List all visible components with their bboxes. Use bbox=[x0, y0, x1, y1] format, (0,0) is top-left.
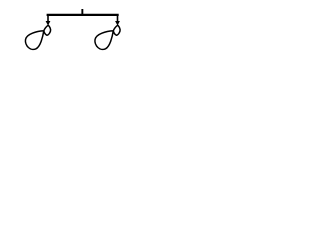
wire bar (horizontal rod) bbox=[48, 14, 118, 16]
diagram: two balloons hanging from a bar with down arrows bbox=[0, 0, 150, 59]
wire right drop bbox=[117, 15, 119, 21]
arrow right head bbox=[115, 21, 120, 26]
arrow left head bbox=[46, 21, 51, 26]
balloon B2 (body + knot loop, one stroke) bbox=[95, 25, 120, 49]
balloon B1 (body + knot loop, one stroke) bbox=[25, 25, 50, 49]
node center tick bbox=[81, 9, 83, 15]
wire left drop bbox=[47, 15, 49, 21]
